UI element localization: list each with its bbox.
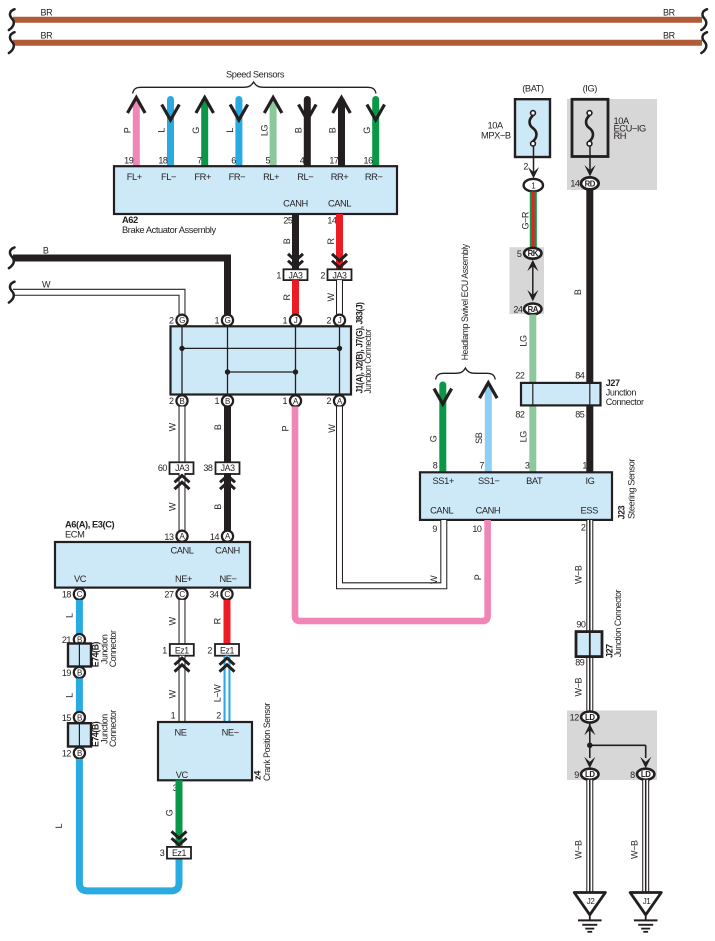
svg-text:1: 1 bbox=[162, 645, 167, 655]
wire LG RA to steering BAT bbox=[518, 315, 533, 473]
svg-text:2: 2 bbox=[327, 396, 332, 406]
connector 2 Ez1 bbox=[207, 644, 239, 656]
pin 2J bbox=[327, 315, 346, 326]
wire B CANH pin 25 bbox=[282, 214, 303, 269]
svg-text:W: W bbox=[168, 502, 178, 511]
svg-text:1: 1 bbox=[283, 396, 288, 406]
label Headlamp Swivel ECU Assembly with brace bbox=[436, 244, 496, 380]
svg-text:Ez1: Ez1 bbox=[172, 848, 186, 858]
wire RL+ LG pin 5 bbox=[259, 98, 282, 167]
svg-text:J2: J2 bbox=[587, 897, 596, 906]
wire W 1 Ez1 to NE bbox=[168, 656, 190, 723]
svg-text:6: 6 bbox=[231, 156, 236, 166]
wire RR- G pin 16 bbox=[362, 100, 385, 167]
svg-text:18: 18 bbox=[62, 590, 72, 600]
svg-text:2: 2 bbox=[216, 711, 221, 721]
ECM A6(A), E3(C) bbox=[55, 520, 250, 588]
ground J1 bbox=[630, 893, 661, 932]
connector 24 RA bbox=[513, 304, 541, 315]
wire W loop CANL to junction 2A bbox=[327, 407, 444, 586]
pin 1B bbox=[215, 395, 234, 406]
svg-text:22: 22 bbox=[515, 371, 525, 381]
svg-text:JA3: JA3 bbox=[221, 463, 235, 473]
junction connector J27 bar bbox=[515, 371, 644, 420]
svg-text:FL+: FL+ bbox=[127, 172, 142, 182]
svg-text:B: B bbox=[77, 749, 82, 758]
svg-text:VC: VC bbox=[74, 574, 87, 584]
wire B RD to steering IG bbox=[573, 189, 590, 472]
svg-text:2: 2 bbox=[169, 396, 174, 406]
svg-text:J: J bbox=[338, 316, 342, 325]
svg-text:10A: 10A bbox=[488, 120, 505, 130]
svg-text:FR−: FR− bbox=[229, 172, 246, 182]
svg-text:P: P bbox=[473, 574, 483, 580]
svg-text:R: R bbox=[326, 238, 336, 245]
svg-text:P: P bbox=[123, 127, 133, 133]
pin 2B bbox=[169, 395, 188, 406]
svg-text:LG: LG bbox=[518, 335, 528, 347]
gray panel LD bbox=[567, 711, 657, 781]
svg-text:Connector: Connector bbox=[606, 397, 644, 407]
svg-text:19: 19 bbox=[124, 156, 134, 166]
svg-text:Steering Sensor: Steering Sensor bbox=[627, 458, 637, 519]
wire SB to SS1- bbox=[474, 383, 497, 473]
wire BR bus 2 bbox=[9, 30, 707, 53]
svg-text:SS1−: SS1− bbox=[478, 476, 499, 486]
ECM pin 18C bbox=[62, 589, 85, 600]
wire G VC pin 3 to 3 Ez1 bbox=[165, 780, 187, 846]
svg-text:C: C bbox=[224, 590, 230, 599]
wire W-B ESS to J27 bbox=[574, 520, 590, 711]
svg-text:12: 12 bbox=[62, 749, 72, 759]
svg-text:BR: BR bbox=[663, 7, 676, 17]
svg-text:B: B bbox=[180, 397, 185, 406]
svg-text:G−R: G−R bbox=[520, 211, 530, 229]
connector 60 JA3 bbox=[158, 462, 194, 474]
svg-text:CANL: CANL bbox=[328, 199, 351, 209]
wire B to ECM 14A bbox=[213, 473, 235, 536]
svg-text:Connector: Connector bbox=[108, 630, 118, 667]
svg-text:L−W: L−W bbox=[213, 684, 223, 702]
svg-text:L: L bbox=[64, 613, 74, 618]
wire FR+ G pin 7 bbox=[191, 98, 214, 167]
svg-text:LG: LG bbox=[259, 125, 269, 137]
wire G-R to 5 RK bbox=[520, 192, 533, 249]
wire B from left bbox=[9, 245, 228, 314]
wire L loop to 3 Ez1 bbox=[54, 759, 179, 891]
svg-text:P: P bbox=[281, 425, 291, 431]
wire RL- B pin 4 bbox=[294, 100, 317, 167]
svg-text:G: G bbox=[179, 316, 185, 325]
svg-text:Speed Sensors: Speed Sensors bbox=[226, 70, 285, 80]
svg-text:5: 5 bbox=[517, 249, 522, 259]
svg-text:2: 2 bbox=[207, 645, 212, 655]
svg-text:RH: RH bbox=[614, 131, 627, 141]
svg-text:W: W bbox=[429, 575, 439, 584]
svg-text:14: 14 bbox=[210, 532, 220, 542]
svg-text:L: L bbox=[64, 693, 74, 698]
svg-text:IG: IG bbox=[586, 476, 595, 486]
label Speed Sensors with brace bbox=[133, 70, 376, 94]
svg-text:JA3: JA3 bbox=[175, 463, 189, 473]
svg-text:B: B bbox=[77, 669, 82, 678]
svg-text:Brake Actuator Assembly: Brake Actuator Assembly bbox=[122, 225, 216, 235]
svg-text:BAT: BAT bbox=[526, 476, 543, 486]
wire RR+ B pin 17 bbox=[328, 98, 351, 167]
svg-text:B: B bbox=[77, 713, 82, 722]
connector 9 LD bbox=[574, 769, 598, 780]
svg-text:BR: BR bbox=[663, 30, 676, 40]
svg-text:FL−: FL− bbox=[161, 172, 176, 182]
svg-text:CANH: CANH bbox=[283, 199, 308, 209]
arrows between RK and RA bbox=[527, 260, 538, 302]
svg-text:3: 3 bbox=[525, 460, 530, 470]
crank position sensor z4 bbox=[158, 703, 272, 781]
connector 38 JA3 bbox=[203, 462, 239, 474]
svg-text:25: 25 bbox=[283, 216, 293, 226]
svg-text:L: L bbox=[157, 128, 167, 133]
junction connector J1(A), J2(B), J7(G), J83(J) bbox=[171, 302, 374, 394]
brake actuator A62 bbox=[114, 166, 397, 235]
steering sensor J23 bbox=[420, 458, 637, 519]
svg-text:Junction Connector: Junction Connector bbox=[363, 329, 373, 394]
svg-text:4: 4 bbox=[300, 156, 305, 166]
fuse 10A ECU-IG RH (IG) bbox=[572, 83, 646, 156]
wire L-W 2 Ez1 to NE- bbox=[213, 656, 235, 723]
svg-text:5: 5 bbox=[266, 156, 271, 166]
svg-text:2: 2 bbox=[581, 523, 586, 533]
wire W from left bbox=[9, 280, 182, 315]
ground J2 bbox=[574, 893, 605, 932]
svg-text:B: B bbox=[213, 424, 223, 430]
svg-text:ESS: ESS bbox=[581, 506, 599, 516]
svg-text:L: L bbox=[54, 823, 64, 828]
svg-text:Headlamp Swivel ECU Assembly: Headlamp Swivel ECU Assembly bbox=[460, 244, 470, 361]
svg-text:B: B bbox=[225, 397, 230, 406]
svg-text:RL−: RL− bbox=[297, 172, 313, 182]
connector 5 RK bbox=[517, 248, 542, 259]
svg-text:B: B bbox=[573, 289, 583, 295]
svg-text:1: 1 bbox=[283, 316, 288, 326]
wire W to junction 2J bbox=[326, 280, 339, 314]
svg-text:C: C bbox=[179, 590, 185, 599]
connector 14 RD bbox=[570, 177, 598, 189]
connector oval 1 bbox=[524, 179, 543, 192]
svg-text:(IG): (IG) bbox=[583, 83, 598, 93]
svg-text:B: B bbox=[294, 127, 304, 133]
svg-text:Ez1: Ez1 bbox=[175, 645, 189, 655]
svg-text:JA3: JA3 bbox=[333, 270, 347, 280]
svg-text:A6(A), E3(C): A6(A), E3(C) bbox=[65, 520, 115, 530]
svg-text:J1: J1 bbox=[643, 897, 652, 906]
svg-text:RA: RA bbox=[528, 305, 539, 314]
gray panel RK/RA bbox=[510, 247, 545, 314]
svg-text:16: 16 bbox=[364, 156, 374, 166]
svg-text:2: 2 bbox=[169, 316, 174, 326]
svg-text:89: 89 bbox=[575, 657, 585, 667]
svg-text:NE−: NE− bbox=[222, 727, 239, 737]
svg-text:G: G bbox=[225, 316, 231, 325]
wire W to ECM 13A bbox=[168, 473, 190, 536]
svg-text:B: B bbox=[43, 245, 49, 255]
svg-text:(BAT): (BAT) bbox=[522, 83, 544, 93]
svg-text:Ez1: Ez1 bbox=[220, 645, 234, 655]
svg-text:W: W bbox=[326, 293, 336, 302]
svg-text:9: 9 bbox=[432, 524, 437, 534]
svg-text:R: R bbox=[282, 294, 292, 301]
svg-text:W−B: W−B bbox=[629, 840, 639, 859]
svg-text:CANH: CANH bbox=[476, 506, 501, 516]
svg-text:13: 13 bbox=[164, 532, 174, 542]
svg-text:24: 24 bbox=[513, 305, 523, 315]
wire fuse pin 2 to connector 1 bbox=[523, 146, 539, 179]
svg-text:14: 14 bbox=[570, 179, 580, 189]
pin 1J bbox=[283, 315, 302, 326]
wire W-B 9 LD to ground J2 bbox=[574, 780, 590, 892]
svg-text:2: 2 bbox=[327, 316, 332, 326]
svg-text:1: 1 bbox=[215, 316, 220, 326]
wire P loop CANH to junction 1A bbox=[281, 407, 488, 622]
svg-text:LD: LD bbox=[585, 770, 595, 779]
connector 3 Ez1 bbox=[160, 847, 191, 859]
wire R to junction 1J bbox=[282, 280, 295, 314]
svg-text:38: 38 bbox=[203, 463, 213, 473]
svg-text:LG: LG bbox=[518, 431, 528, 443]
svg-text:L: L bbox=[225, 128, 235, 133]
svg-text:90: 90 bbox=[576, 619, 586, 629]
pin 1A bbox=[283, 395, 302, 406]
junction connector E74(B) lower bbox=[62, 710, 118, 759]
wire FR- L pin 6 bbox=[225, 100, 248, 167]
svg-text:G: G bbox=[165, 809, 175, 816]
svg-text:RR+: RR+ bbox=[331, 172, 349, 182]
wire L VC to E74 bbox=[64, 600, 79, 634]
svg-text:RD: RD bbox=[585, 179, 596, 188]
svg-text:BR: BR bbox=[41, 30, 54, 40]
svg-text:z4: z4 bbox=[252, 770, 262, 780]
ECM pin 13A bbox=[164, 531, 187, 542]
pin 1G bbox=[215, 315, 234, 326]
svg-text:3: 3 bbox=[160, 848, 165, 858]
svg-text:B: B bbox=[282, 238, 292, 244]
svg-text:9: 9 bbox=[574, 770, 579, 780]
svg-text:15: 15 bbox=[62, 713, 72, 723]
svg-text:A62: A62 bbox=[122, 215, 138, 225]
svg-text:Connector: Connector bbox=[108, 710, 118, 747]
svg-text:CANL: CANL bbox=[430, 506, 453, 516]
LD internal wiring with node bbox=[584, 723, 651, 768]
svg-text:G: G bbox=[362, 127, 372, 134]
svg-text:LD: LD bbox=[641, 770, 651, 779]
svg-text:W−B: W−B bbox=[574, 840, 584, 859]
svg-text:R: R bbox=[213, 617, 223, 624]
svg-text:1: 1 bbox=[171, 711, 176, 721]
svg-text:W: W bbox=[168, 616, 178, 625]
svg-text:J23: J23 bbox=[616, 505, 626, 519]
svg-text:CANL: CANL bbox=[170, 545, 193, 555]
svg-text:JA3: JA3 bbox=[289, 270, 303, 280]
ECM pin 34C bbox=[209, 589, 232, 600]
svg-text:RK: RK bbox=[528, 249, 539, 258]
svg-text:CANH: CANH bbox=[215, 545, 240, 555]
svg-text:B: B bbox=[328, 127, 338, 133]
svg-text:B: B bbox=[213, 504, 223, 510]
wire G to SS1+ bbox=[428, 385, 451, 472]
pin 2G bbox=[169, 315, 188, 326]
wire W 27C to 1 Ez1 bbox=[168, 600, 183, 644]
svg-text:W: W bbox=[42, 280, 51, 290]
svg-text:W−B: W−B bbox=[574, 565, 584, 584]
svg-text:RR−: RR− bbox=[365, 172, 383, 182]
svg-text:8: 8 bbox=[630, 770, 635, 780]
junction connector E74(B) upper bbox=[62, 630, 118, 678]
junction connector J27 square bbox=[575, 590, 623, 668]
svg-text:82: 82 bbox=[515, 409, 525, 419]
svg-text:34: 34 bbox=[209, 590, 219, 600]
svg-text:W: W bbox=[168, 422, 178, 431]
svg-text:FR+: FR+ bbox=[194, 172, 211, 182]
ECM pin 27C bbox=[164, 589, 187, 600]
svg-text:RL+: RL+ bbox=[263, 172, 279, 182]
svg-text:C: C bbox=[77, 590, 83, 599]
svg-text:W−B: W−B bbox=[574, 678, 584, 697]
pin 2A bbox=[327, 395, 346, 406]
connector 1 Ez1 bbox=[162, 644, 194, 656]
fuse 10A MPX-B (BAT) bbox=[481, 83, 550, 157]
svg-text:2: 2 bbox=[320, 270, 325, 280]
svg-text:Crank Position Sensor: Crank Position Sensor bbox=[262, 703, 272, 781]
svg-text:85: 85 bbox=[575, 409, 585, 419]
wire R 34C to 2 Ez1 bbox=[213, 600, 228, 644]
svg-text:1: 1 bbox=[215, 396, 220, 406]
svg-text:1: 1 bbox=[276, 270, 281, 280]
svg-text:2: 2 bbox=[523, 162, 528, 172]
svg-text:8: 8 bbox=[433, 460, 438, 470]
svg-text:14: 14 bbox=[327, 216, 337, 226]
svg-text:27: 27 bbox=[164, 590, 174, 600]
svg-text:NE+: NE+ bbox=[175, 574, 192, 584]
svg-text:SS1+: SS1+ bbox=[433, 476, 454, 486]
svg-text:7: 7 bbox=[479, 460, 484, 470]
svg-text:1: 1 bbox=[582, 460, 587, 470]
wire R CANL pin 14 bbox=[326, 214, 347, 269]
svg-text:60: 60 bbox=[158, 463, 168, 473]
connector 2 JA3 bbox=[320, 269, 351, 280]
svg-text:J: J bbox=[294, 316, 298, 325]
wire B 1B to 38 JA3 bbox=[213, 407, 228, 463]
svg-text:18: 18 bbox=[158, 156, 168, 166]
svg-text:NE: NE bbox=[174, 727, 186, 737]
svg-text:84: 84 bbox=[575, 371, 585, 381]
wire FL- L pin 18 bbox=[157, 100, 180, 167]
wire BR bus 1 bbox=[9, 7, 707, 30]
wire fuse to 14 RD bbox=[584, 146, 595, 177]
svg-text:BR: BR bbox=[41, 7, 54, 17]
svg-text:G: G bbox=[191, 127, 201, 134]
svg-text:G: G bbox=[428, 435, 438, 442]
ECM pin 14A bbox=[210, 531, 233, 542]
wire L bbox=[64, 678, 79, 711]
connector 12 LD bbox=[570, 712, 599, 723]
svg-text:17: 17 bbox=[329, 156, 339, 166]
svg-text:7: 7 bbox=[197, 156, 202, 166]
connector 8 LD bbox=[630, 769, 654, 780]
connector 1 JA3 bbox=[276, 269, 307, 280]
gray panel around ECU-IG fuse bbox=[567, 99, 657, 190]
svg-text:LD: LD bbox=[585, 713, 595, 722]
svg-text:Junction Connector: Junction Connector bbox=[613, 590, 623, 657]
svg-text:ECM: ECM bbox=[65, 529, 84, 539]
svg-text:W: W bbox=[327, 424, 337, 433]
wire W 2B to 60 JA3 bbox=[168, 407, 183, 463]
svg-text:10: 10 bbox=[472, 524, 482, 534]
svg-text:MPX−B: MPX−B bbox=[481, 130, 511, 140]
svg-text:W: W bbox=[168, 689, 178, 698]
svg-text:NE−: NE− bbox=[219, 574, 236, 584]
svg-text:12: 12 bbox=[570, 713, 580, 723]
wire FL+ P pin 19 bbox=[123, 98, 146, 167]
svg-text:SB: SB bbox=[474, 432, 484, 444]
svg-text:VC: VC bbox=[176, 770, 189, 780]
svg-text:19: 19 bbox=[62, 668, 72, 678]
wire W-B 8 LD to ground J1 bbox=[629, 780, 645, 892]
